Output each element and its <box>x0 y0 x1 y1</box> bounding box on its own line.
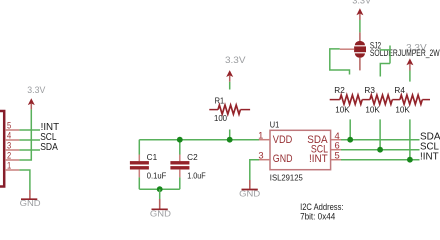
wire: SDA bus line <box>341 139 420 141</box>
wire: C1 top riser <box>138 140 140 155</box>
wire: C2 top riser <box>179 140 181 155</box>
junction on VDD rail at R1 <box>227 137 233 143</box>
svg-text:!INT: !INT <box>309 153 328 165</box>
pin 3 stub <box>259 159 270 161</box>
svg-text:3.3V: 3.3V <box>225 55 246 66</box>
svg-text:R3: R3 <box>364 86 375 95</box>
svg-text:U1: U1 <box>270 120 280 129</box>
solder jumper SJ2 name labels <box>370 40 440 58</box>
resistor R4 <box>394 86 430 115</box>
svg-text:7bit: 0x44: 7bit: 0x44 <box>300 212 335 220</box>
junction on SCL line at R3 <box>377 147 383 153</box>
junction on bottom rail (GND stem) <box>157 186 163 192</box>
svg-text:10K: 10K <box>335 106 350 115</box>
wire: U1 pin3 to GND <box>250 160 259 180</box>
svg-text:GND: GND <box>20 198 41 208</box>
svg-text:5: 5 <box>335 150 340 161</box>
wire: right 3.3V stem above R4 <box>409 71 411 82</box>
svg-text:SDA: SDA <box>40 141 58 153</box>
wire: INT bus line <box>341 159 420 161</box>
svg-text:3: 3 <box>258 149 263 160</box>
wire: pin1 down to GND <box>19 170 30 190</box>
svg-text:5: 5 <box>7 121 11 131</box>
svg-text:10K: 10K <box>365 106 380 115</box>
svg-text:1.0uF: 1.0uF <box>187 172 206 181</box>
capacitor C2 <box>170 153 205 181</box>
note: I2C address text <box>300 202 343 222</box>
wire: stem to GND below capacitors <box>159 189 161 199</box>
svg-text:4: 4 <box>7 131 11 141</box>
svg-text:100: 100 <box>214 114 228 123</box>
svg-text:0.1uF: 0.1uF <box>147 172 167 181</box>
wire: pin2 up to 3.3V <box>19 109 31 160</box>
svg-text:C2: C2 <box>187 153 198 162</box>
svg-text:VDD: VDD <box>273 134 293 146</box>
resistor R2 <box>330 86 370 115</box>
pin 5 stub <box>331 159 341 161</box>
svg-text:2: 2 <box>7 151 11 161</box>
junction on VDD rail at C2 <box>177 137 183 143</box>
3.3V supply symbol (left, above connector pin 2) <box>27 85 46 109</box>
wire: SJ2 right branch jog down to R3 top <box>380 46 391 77</box>
wire: C1 bottom drop <box>138 177 140 189</box>
wire: R4 dropper to INT line <box>409 119 411 159</box>
wire: R2 dropper to SDA line <box>349 119 351 139</box>
ground symbol (below capacitors) <box>150 199 171 218</box>
ground symbol (below U1 pin 3) <box>239 180 260 199</box>
junction on INT line at R4 <box>407 157 413 163</box>
wire: pin4 to SCL label <box>19 139 40 141</box>
capacitor C1 <box>130 153 166 181</box>
resistor R3 <box>364 86 400 115</box>
svg-text:C1: C1 <box>147 153 158 162</box>
svg-text:!INT: !INT <box>420 150 439 162</box>
wire: pin5 to !INT label <box>19 129 40 131</box>
svg-text:R2: R2 <box>334 86 345 95</box>
wire: SJ2 left branch down to R2 top <box>330 49 350 75</box>
svg-text:ISL29125: ISL29125 <box>270 173 304 182</box>
ground symbol (below connector pin 1) <box>20 190 41 208</box>
wire: SCL bus line <box>341 149 420 151</box>
svg-text:3: 3 <box>7 141 11 151</box>
svg-text:I2C Address:: I2C Address: <box>300 202 343 212</box>
svg-text:R4: R4 <box>394 86 405 95</box>
3.3V supply label (right, above R4) <box>406 43 427 71</box>
3.3V supply symbol (above R1) <box>225 55 246 82</box>
IC U1 ISL29125 <box>258 120 341 182</box>
wire: pin3 to SDA label <box>19 149 40 151</box>
wire: VDD rail to U1 pin 1 <box>139 139 259 141</box>
svg-text:GND: GND <box>239 189 260 199</box>
wire: R3 dropper to SCL line <box>379 119 381 149</box>
wire: R1 bottom stub <box>229 130 231 140</box>
junction on SDA line at R2 <box>347 137 353 143</box>
svg-text:3.3V: 3.3V <box>27 85 46 96</box>
pin 1 stub <box>259 139 270 141</box>
svg-text:GND: GND <box>150 208 171 218</box>
3.3V supply label (top, above SJ2, clipped) <box>352 0 372 20</box>
svg-text:GND: GND <box>273 153 293 165</box>
wire: R1 top stub from 3.3V <box>229 82 231 90</box>
pin 4 stub <box>331 139 341 141</box>
connector J1 (left edge, partially clipped) <box>0 111 19 187</box>
wire: top 3.3V to SJ2 <box>359 20 361 32</box>
svg-text:1: 1 <box>7 161 11 171</box>
svg-text:1: 1 <box>258 129 263 140</box>
svg-text:3.3V: 3.3V <box>352 0 372 6</box>
wire: C2 bottom drop <box>179 177 181 189</box>
solder jumper SJ2 <box>340 32 366 70</box>
wire: bottom rail C1 to C2 <box>139 188 180 190</box>
pin 6 stub <box>331 149 341 151</box>
resistor R1 <box>209 96 250 123</box>
svg-text:10K: 10K <box>395 106 410 115</box>
